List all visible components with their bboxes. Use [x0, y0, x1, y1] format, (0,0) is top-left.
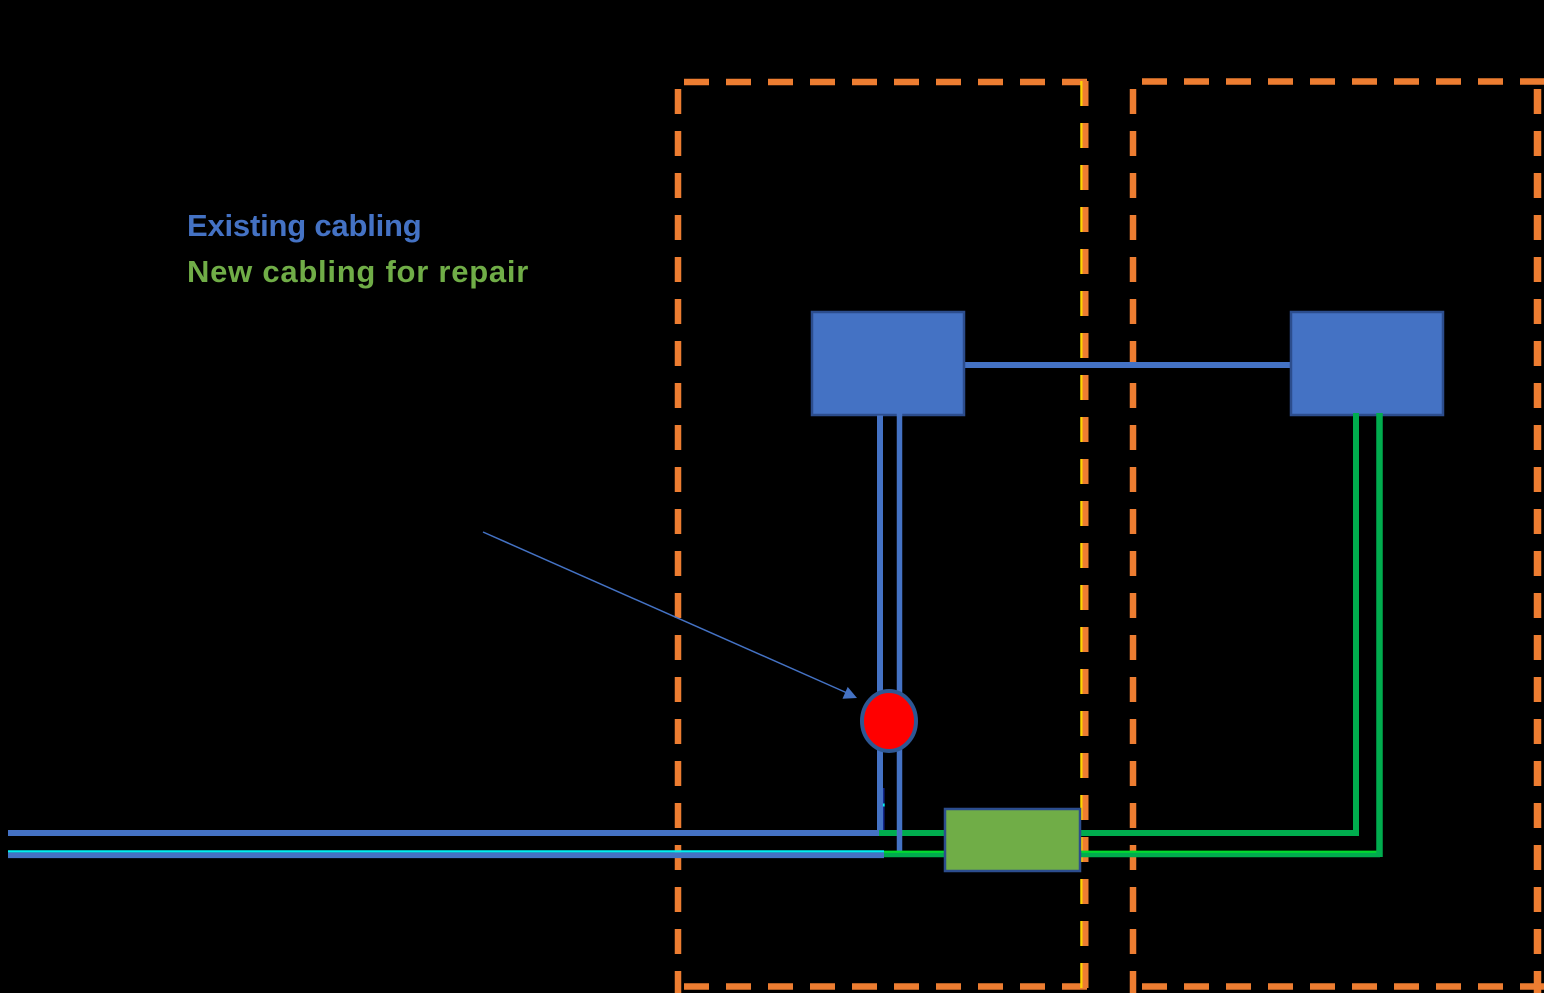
lower blue horizontal cable (left) — [8, 852, 884, 858]
annotation arrow head — [843, 687, 858, 699]
green splice box — [945, 809, 1080, 871]
blue node box 2 (right) — [1291, 312, 1443, 415]
upper green horizontal cable — [879, 830, 1359, 836]
blue connector line between box nodes — [963, 362, 1292, 368]
thin navy line beside left drop — [883, 788, 885, 831]
box1 bottom edge — [672, 983, 1089, 990]
box2 bottom edge — [1128, 983, 1544, 990]
right blue vertical drop from node box 1 — [897, 409, 903, 855]
cyan tick on navy line — [883, 804, 885, 807]
red fault ellipse — [862, 691, 916, 751]
box2 right edge — [1534, 85, 1542, 993]
blue node box 1 (left) — [812, 312, 964, 415]
box1 left edge — [675, 86, 682, 993]
box1 top edge — [672, 79, 1089, 86]
left blue vertical drop from node box 1 — [877, 416, 883, 835]
box1 yellow inner dashed line on right edge — [1080, 78, 1084, 993]
svg-text:New cabling for repair: New cabling for repair — [187, 254, 529, 289]
upper blue horizontal cable (left) — [8, 830, 881, 836]
dashed enclosure box 2 (house area) — [1128, 82, 1544, 993]
lower green horizontal cable — [884, 852, 1380, 858]
dashed enclosure box 1 (street cabinet area) — [672, 82, 1089, 993]
box2 top edge — [1128, 78, 1544, 85]
box2 left edge — [1130, 85, 1137, 993]
bright green highlight on lower green cable — [884, 851, 1380, 853]
box1 right edge (orange dashes over yellow) — [1083, 78, 1089, 993]
svg-text:Existing cabling: Existing cabling — [187, 208, 422, 243]
cyan highlight line on lower cable — [8, 850, 884, 852]
green vertical riser (right) from node box 2 — [1376, 413, 1383, 857]
annotation arrow line — [483, 532, 846, 693]
green vertical riser (left) from node box 2 — [1353, 413, 1359, 836]
